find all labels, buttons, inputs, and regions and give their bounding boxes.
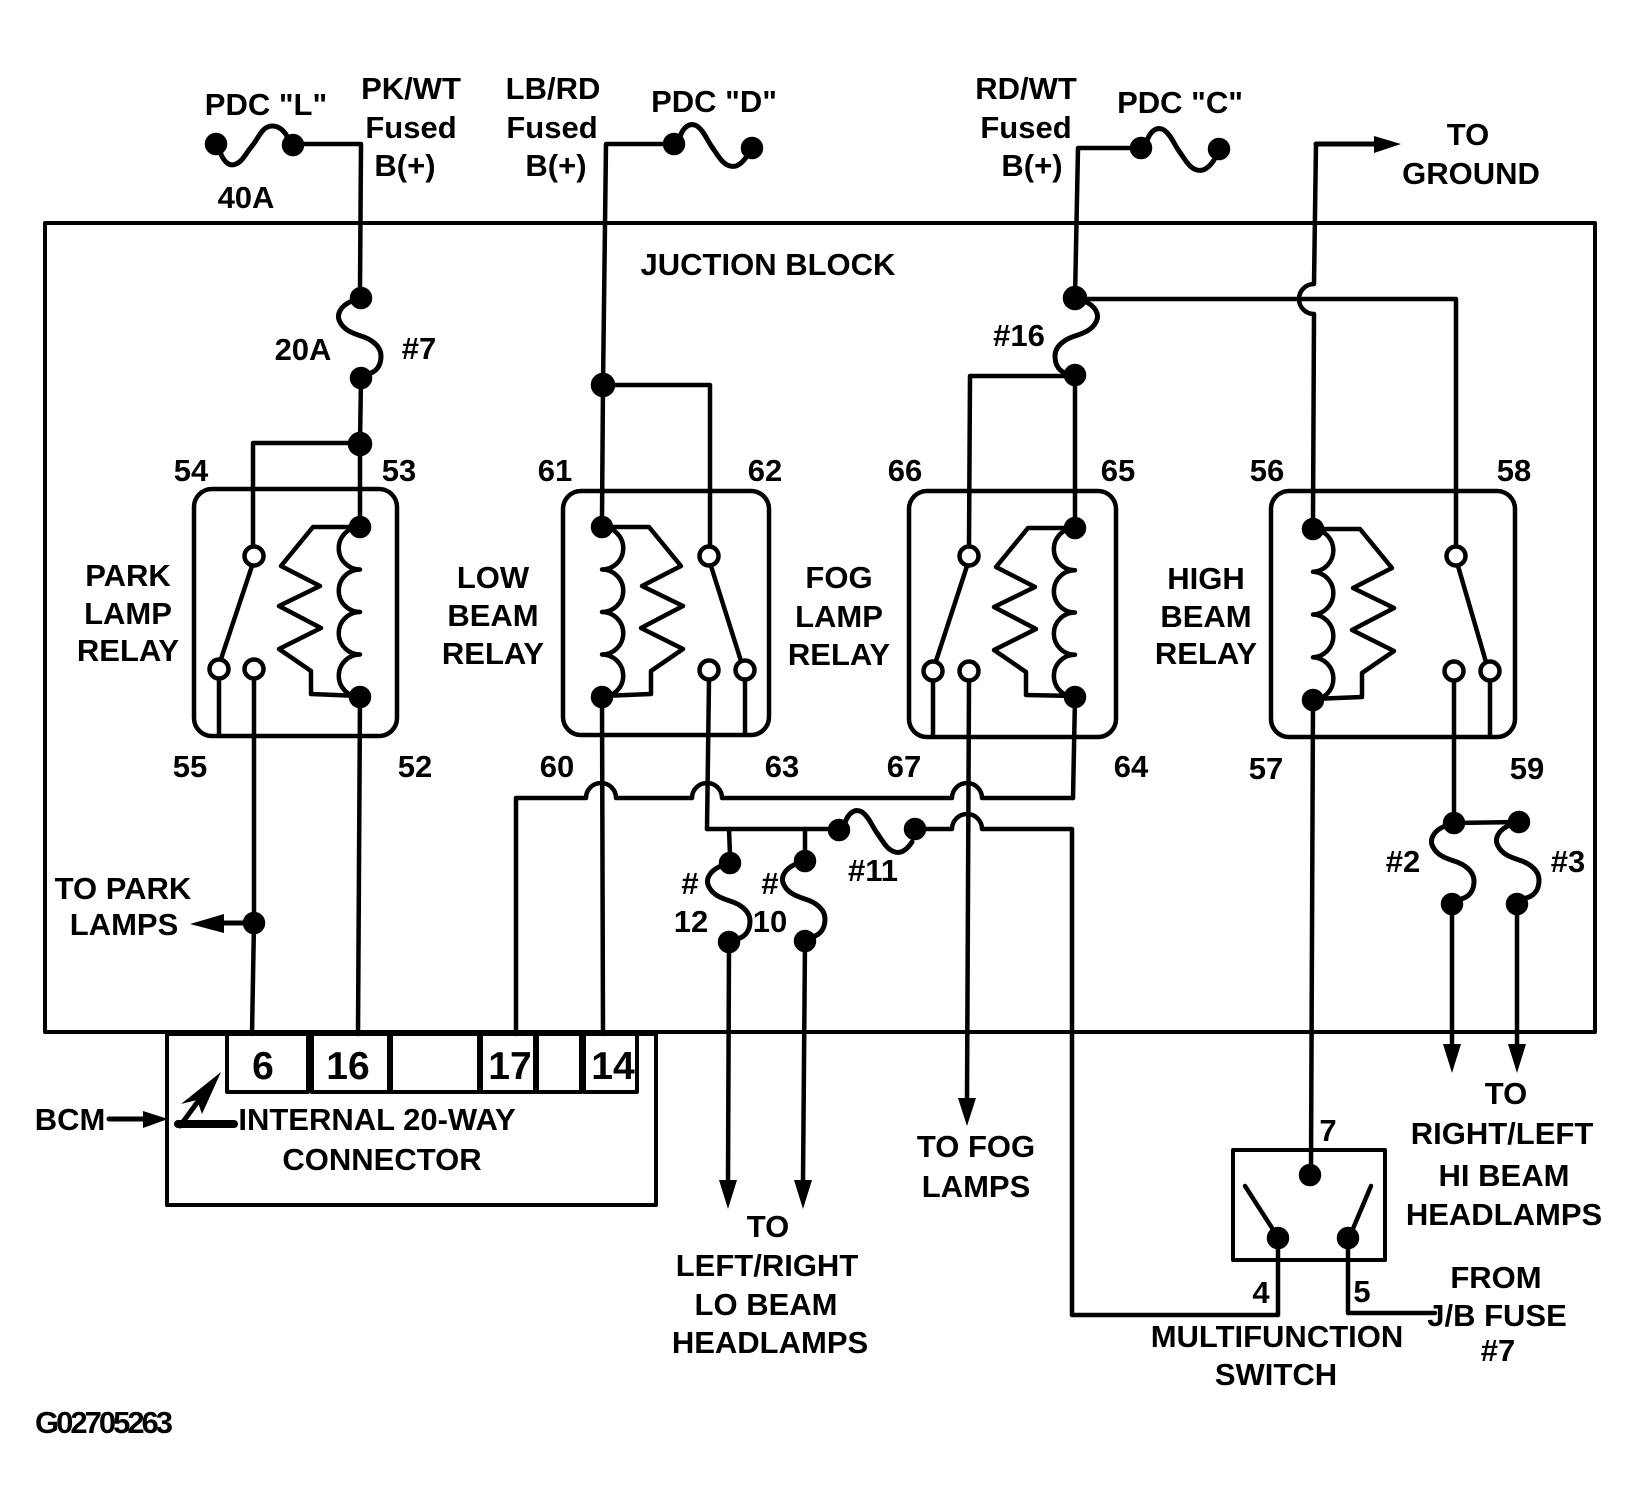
svg-text:PK/WT: PK/WT (361, 71, 461, 106)
svg-text:17: 17 (488, 1045, 531, 1088)
wire pin 67 to fog lamps arrow (967, 681, 969, 1100)
svg-text:CONNECTOR: CONNECTOR (282, 1142, 481, 1177)
svg-text:RD/WT: RD/WT (975, 71, 1077, 106)
park relay switch common circle pin 54 (245, 547, 264, 566)
fog switch contact circle output (960, 662, 979, 681)
svg-text:53: 53 (382, 453, 416, 488)
svg-text:TO FOG: TO FOG (917, 1129, 1035, 1164)
svg-text:LAMP: LAMP (795, 599, 883, 634)
wire pin 63 down to bus B (707, 680, 709, 829)
park relay coil bottom dot pin 52 (351, 688, 369, 706)
arrow TO PARK LAMPS (190, 914, 254, 933)
svg-text:LB/RD: LB/RD (506, 71, 601, 106)
svg-text:56: 56 (1250, 453, 1284, 488)
svg-text:57: 57 (1249, 751, 1283, 786)
svg-text:FOG: FOG (805, 560, 872, 595)
high beam switch contact circle pin 59 (1445, 662, 1464, 681)
svg-text:LO BEAM: LO BEAM (695, 1287, 838, 1322)
park relay coil humps (339, 527, 360, 697)
low beam switch blade (711, 566, 741, 661)
svg-text:4: 4 (1252, 1275, 1270, 1310)
low beam switch common circle pin 62 (700, 547, 719, 566)
svg-text:LAMP: LAMP (84, 596, 172, 631)
svg-text:52: 52 (398, 749, 432, 784)
svg-text:62: 62 (748, 453, 782, 488)
connector pin box blank 2 (537, 1034, 581, 1092)
node fuse #16 bottom junction (1066, 366, 1084, 384)
wire fuse #3 to hi beam arrow (1515, 904, 1520, 1046)
svg-text:PDC "L": PDC "L" (205, 87, 327, 122)
svg-text:RELAY: RELAY (1155, 636, 1258, 671)
svg-text:60: 60 (540, 749, 574, 784)
wire pin 59 down to fuses #2 #3 (1452, 681, 1457, 814)
multifunction switch left blade (1245, 1186, 1274, 1231)
fog switch contact circle pin 67 stub (924, 662, 943, 681)
fog coil bottom dot pin 64 (1066, 688, 1084, 706)
svg-text:BEAM: BEAM (447, 598, 538, 633)
svg-text:12: 12 (674, 904, 708, 939)
high beam switch common circle pin 58 (1447, 547, 1466, 566)
svg-text:PDC "C": PDC "C" (1117, 85, 1243, 120)
junction block outline (45, 223, 1595, 1032)
svg-text:40A: 40A (218, 180, 275, 215)
fuse #12 (708, 854, 751, 951)
wire pin 52 to connector pin 16 (358, 697, 360, 1034)
svg-text:#16: #16 (993, 318, 1045, 353)
svg-text:#3: #3 (1551, 844, 1585, 879)
wire pin 5 to from J/B fuse (1348, 1247, 1435, 1313)
svg-text:7: 7 (1319, 1113, 1336, 1148)
svg-text:LEFT/RIGHT: LEFT/RIGHT (676, 1248, 859, 1283)
svg-text:64: 64 (1114, 749, 1149, 784)
wire tap to fuse #10 (803, 829, 808, 853)
node park relay feed junction (350, 434, 370, 454)
multifunction switch pin 7 dot (1301, 1166, 1319, 1184)
svg-text:5: 5 (1353, 1274, 1370, 1309)
svg-text:#: # (681, 866, 698, 901)
wire pin 57 to multifunction switch pin 7 (1311, 700, 1313, 1167)
high beam coil resistor zigzag (1313, 529, 1394, 699)
high beam coil bottom dot pin 57 (1304, 691, 1322, 709)
node low beam feed junction (593, 375, 613, 395)
arrow to left/right lo beam headlamps 2 (794, 1180, 812, 1209)
arrow to right/left hi beam headlamps 1 (1443, 1044, 1461, 1073)
svg-text:FROM: FROM (1450, 1260, 1541, 1295)
wire stub below left contact (931, 681, 936, 735)
svg-text:6: 6 (252, 1045, 274, 1088)
svg-text:65: 65 (1101, 453, 1135, 488)
svg-text:10: 10 (753, 904, 787, 939)
relay box LOW BEAM RELAY (563, 491, 769, 735)
wire fuse #2 to fuse #3 (1454, 822, 1519, 823)
svg-text:HEADLAMPS: HEADLAMPS (672, 1325, 868, 1360)
svg-text:TO PARK: TO PARK (55, 871, 192, 906)
svg-text:INTERNAL 20-WAY: INTERNAL 20-WAY (238, 1102, 516, 1137)
fuse PDC "L" 40A (207, 126, 302, 165)
wire pin 60 to connector pin 14 (602, 697, 603, 1034)
svg-text:RELAY: RELAY (788, 637, 891, 672)
fuse #7 20A (339, 301, 382, 374)
svg-text:58: 58 (1497, 453, 1531, 488)
arrow TO FOG LAMPS (958, 1098, 976, 1126)
low beam coil bottom dot pin 60 (593, 688, 611, 706)
svg-text:HEADLAMPS: HEADLAMPS (1406, 1197, 1602, 1232)
node fuse #16 top junction (1065, 288, 1085, 308)
svg-text:B(+): B(+) (374, 148, 435, 183)
svg-text:#11: #11 (848, 853, 898, 888)
node TO PARK LAMPS junction (245, 914, 263, 932)
fuse #11 (830, 811, 924, 853)
svg-text:Fused: Fused (506, 110, 597, 145)
svg-text:LAMPS: LAMPS (70, 907, 179, 942)
svg-text:67: 67 (887, 749, 921, 784)
svg-text:MULTIFUNCTION: MULTIFUNCTION (1151, 1319, 1404, 1354)
svg-text:B(+): B(+) (1001, 148, 1062, 183)
wire stub below right contact (1488, 681, 1493, 735)
svg-text:PARK: PARK (85, 558, 171, 593)
svg-text:63: 63 (765, 749, 799, 784)
fog coil humps (1054, 528, 1075, 697)
svg-text:LOW: LOW (457, 560, 530, 595)
node fuse #3 bottom (1508, 895, 1526, 913)
high beam coil humps (1313, 529, 1333, 700)
svg-text:20A: 20A (275, 332, 332, 367)
node fuse #7 bottom (352, 369, 370, 387)
fuse #2 (1432, 826, 1475, 899)
svg-text:RELAY: RELAY (442, 636, 545, 671)
arrow to right/left hi beam headlamps 2 (1508, 1044, 1526, 1073)
low beam switch contact circle stub (736, 661, 755, 680)
multifunction switch pin 4 dot (1269, 1229, 1287, 1247)
svg-text:54: 54 (174, 453, 209, 488)
wire junction to pin 66 (969, 376, 1075, 546)
node fuse #7 top (352, 289, 370, 307)
wire fuse #10 to lo beam arrow (803, 941, 805, 1182)
connector pin box blank 1 (391, 1034, 479, 1092)
node fuse #3 top (1510, 813, 1528, 831)
svg-text:14: 14 (591, 1045, 635, 1088)
low beam coil humps (602, 527, 623, 697)
wire pin 64 coil bottom to bus A (1073, 697, 1075, 798)
bus A: pin 64 to connector pin 17 with hops (516, 783, 1073, 1034)
high beam coil top dot pin 56 (1304, 520, 1322, 538)
svg-text:PDC "D": PDC "D" (651, 84, 777, 119)
svg-text:RIGHT/LEFT: RIGHT/LEFT (1411, 1116, 1594, 1151)
wire node to pin 62 (603, 385, 710, 546)
connector pin box 14 (584, 1034, 637, 1092)
wire PDC C to fog relay feed (1075, 148, 1132, 298)
svg-text:TO: TO (747, 1209, 790, 1244)
arrow TO GROUND (1316, 136, 1401, 153)
svg-text:TO: TO (1447, 117, 1490, 152)
low beam coil top dot pin 61 (593, 518, 611, 536)
wire fuse #12 to lo beam arrow (728, 942, 729, 1182)
svg-text:55: 55 (173, 749, 207, 784)
connector pin box 6 (227, 1034, 308, 1092)
relay box PARK LAMP RELAY (194, 489, 397, 736)
svg-text:B(+): B(+) (525, 148, 586, 183)
park relay coil top dot pin 53 (351, 518, 369, 536)
wire PDC L to fuse #7 (302, 144, 361, 290)
svg-text:66: 66 (888, 453, 922, 488)
wire node to pin 61 coil (602, 385, 603, 518)
wire fuse #11 right to pin 4 (924, 814, 1278, 1315)
svg-text:61: 61 (538, 453, 572, 488)
high beam switch contact circle stub (1481, 662, 1500, 681)
low beam coil resistor zigzag (602, 527, 683, 696)
wire stub below right contact (743, 680, 748, 733)
connector pin box 17 (481, 1034, 535, 1092)
lightning arrow to connector (178, 1072, 234, 1126)
svg-text:Fused: Fused (365, 110, 456, 145)
svg-text:#2: #2 (1386, 844, 1420, 879)
fog coil resistor zigzag (994, 528, 1075, 696)
fuse #16 (1055, 301, 1098, 374)
multifunction switch pin 5 dot (1339, 1229, 1357, 1247)
arrow BCM (109, 1111, 168, 1128)
connector pin box 16 (312, 1034, 389, 1092)
wire tap to fuse #12 (729, 829, 730, 855)
wire pin 55 stub (217, 679, 222, 734)
fuse #10 (783, 852, 826, 950)
fuse PDC "C" (1132, 129, 1228, 171)
wire park output to connector pin 6 (252, 679, 254, 1034)
svg-text:BEAM: BEAM (1160, 599, 1251, 634)
wire fuse #7 to node 53 (360, 378, 361, 444)
svg-text:#7: #7 (1481, 1333, 1515, 1368)
svg-text:JUCTION BLOCK: JUCTION BLOCK (641, 247, 897, 282)
node fuse #2 bottom (1443, 895, 1461, 913)
park relay switch contact circle pin 55 (210, 660, 229, 679)
relay box FOG LAMP RELAY (909, 491, 1116, 737)
wire ground line to pin 56 with hop (1299, 144, 1316, 520)
arrow to left/right lo beam headlamps 1 (719, 1180, 737, 1209)
multifunction switch box (1233, 1150, 1385, 1260)
park relay switch contact circle output (245, 660, 264, 679)
svg-text:Fused: Fused (980, 110, 1071, 145)
fog coil top dot pin 65 (1066, 519, 1084, 537)
svg-text:HIGH: HIGH (1167, 561, 1245, 596)
node fuse #2 top (1445, 814, 1463, 832)
svg-text:BCM: BCM (35, 1102, 106, 1137)
bus B: pin 63 to fuse #11 and multifunction pin 4 with hop (707, 827, 830, 832)
svg-text:#: # (761, 866, 778, 901)
svg-text:J/B FUSE: J/B FUSE (1427, 1298, 1567, 1333)
wire node to pin 54 (253, 443, 360, 546)
svg-text:#7: #7 (402, 331, 436, 366)
high beam switch blade (1458, 566, 1486, 662)
park relay switch blade (221, 566, 252, 659)
low beam switch contact circle pin 63 (700, 661, 719, 680)
internal 20-way connector outline (167, 1034, 656, 1205)
svg-text:SWITCH: SWITCH (1215, 1357, 1337, 1392)
svg-text:LAMPS: LAMPS (922, 1169, 1031, 1204)
wire junction to pin 65 coil (1073, 375, 1078, 519)
park relay coil resistor zigzag (279, 527, 360, 696)
fuse #3 (1497, 825, 1540, 898)
multifunction switch right blade (1352, 1186, 1371, 1231)
fuse PDC "D" (665, 125, 761, 167)
fog switch blade (936, 566, 967, 661)
wire PDC D to low beam relay (603, 144, 665, 385)
svg-text:16: 16 (326, 1045, 369, 1088)
wire fuse #2 to hi beam arrow (1450, 904, 1455, 1046)
svg-text:G02705263: G02705263 (35, 1405, 173, 1440)
fog switch common circle pin 66 (960, 547, 979, 566)
svg-text:59: 59 (1510, 751, 1544, 786)
relay box HIGH BEAM RELAY (1271, 491, 1515, 737)
svg-text:RELAY: RELAY (77, 633, 180, 668)
wire junction to pin 58 (1075, 299, 1456, 546)
wire node to pin 53 coil (358, 444, 363, 518)
svg-text:TO: TO (1485, 1076, 1528, 1111)
svg-text:GROUND: GROUND (1402, 156, 1540, 191)
svg-text:HI BEAM: HI BEAM (1439, 1158, 1570, 1193)
